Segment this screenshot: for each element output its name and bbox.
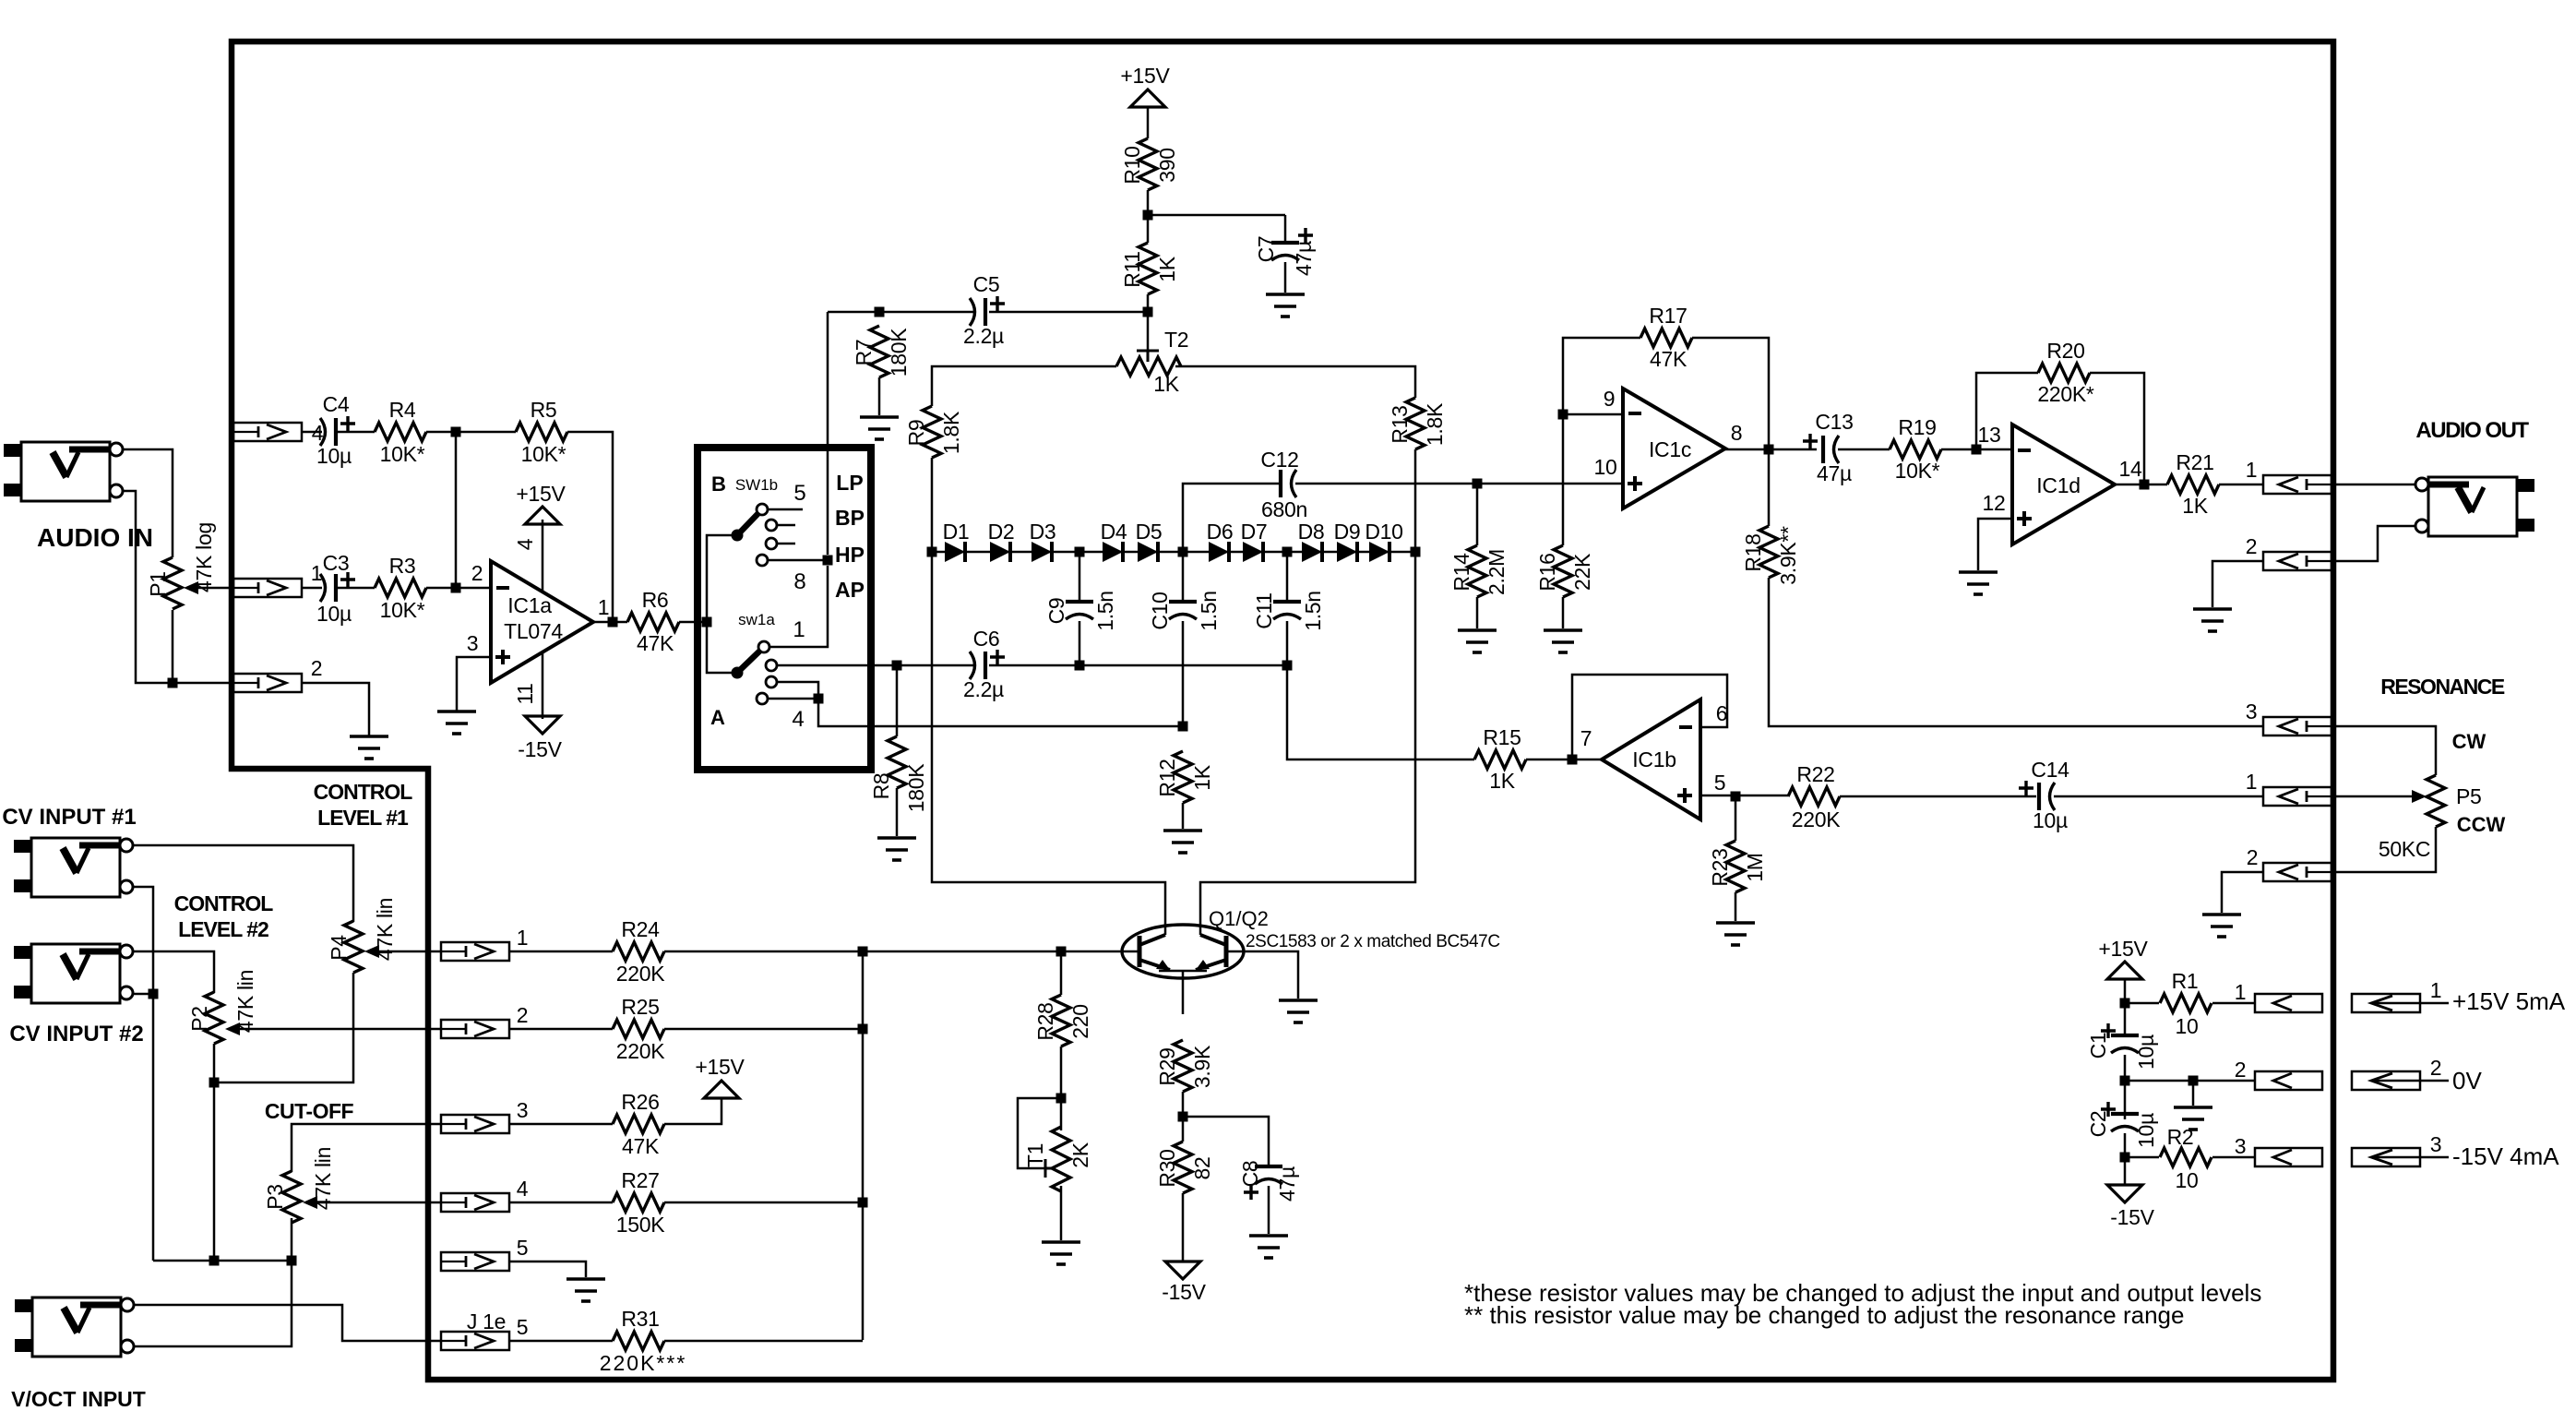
junction inverting input node bbox=[451, 583, 461, 593]
wire P2 bottom bbox=[213, 1044, 216, 1261]
resistor R15 1K bbox=[1474, 750, 1526, 769]
svg-text:P2: P2 bbox=[187, 1006, 211, 1032]
resistor R8 180K bbox=[896, 665, 899, 736]
svg-text:47µ: 47µ bbox=[1817, 461, 1852, 485]
wire R2 row bbox=[2125, 1156, 2255, 1159]
junction 0V ground tap bbox=[2188, 1076, 2199, 1086]
junction R22 R23 node bbox=[1731, 792, 1741, 802]
junction R4 R5 node bbox=[451, 427, 461, 437]
svg-text:R19: R19 bbox=[1898, 415, 1936, 439]
capacitor C9 1.5n bbox=[1079, 552, 1081, 602]
svg-text:2: 2 bbox=[311, 656, 323, 680]
resistor R14 2.2M bbox=[1476, 484, 1479, 545]
junction R1 tap bbox=[2120, 998, 2130, 1009]
svg-text:180K: 180K bbox=[887, 328, 911, 377]
wire audio-in sleeve down bbox=[123, 491, 233, 683]
svg-text:2SC1583 or 2 x matched BC547C: 2SC1583 or 2 x matched BC547C bbox=[1246, 932, 1500, 951]
wire IC1c inverting input bbox=[1563, 413, 1623, 416]
svg-text:150K: 150K bbox=[616, 1213, 665, 1237]
svg-text:D4: D4 bbox=[1101, 520, 1127, 544]
junction P1 bottom bbox=[168, 678, 178, 688]
svg-text:47µ: 47µ bbox=[1275, 1166, 1299, 1202]
resistor R23 1M bbox=[1735, 796, 1737, 841]
svg-text:10µ: 10µ bbox=[2134, 1113, 2158, 1148]
power connector 3 right bbox=[2352, 1148, 2420, 1166]
resistor R10 390 bbox=[1139, 138, 1157, 190]
wire R1 row bbox=[2125, 1002, 2255, 1005]
wire P4 bottom bbox=[214, 973, 353, 1082]
resistor R21 1K bbox=[2167, 475, 2219, 494]
wire sleeve bottom rail bbox=[153, 1260, 292, 1262]
svg-text:TL074: TL074 bbox=[504, 619, 563, 643]
svg-text:1K: 1K bbox=[1155, 256, 1179, 281]
junction -15V row bbox=[2120, 1153, 2130, 1163]
svg-text:R29: R29 bbox=[1155, 1047, 1179, 1085]
wire IC1a pin3 to ground bbox=[457, 657, 491, 711]
board outline border bbox=[232, 42, 2333, 1380]
potentiometer P1 47K log bbox=[163, 557, 182, 609]
wire IC1c output bbox=[1725, 448, 1817, 451]
svg-text:D7: D7 bbox=[1241, 520, 1268, 544]
svg-text:D1: D1 bbox=[943, 520, 970, 544]
capacitor C3 10u bbox=[320, 574, 326, 602]
wire IC1d output bbox=[2115, 484, 2167, 486]
svg-text:3.9K: 3.9K bbox=[1190, 1045, 1214, 1088]
wire R25 to riser bbox=[664, 1028, 863, 1031]
svg-text:1K: 1K bbox=[1153, 372, 1179, 396]
junction R14 top bbox=[1473, 479, 1483, 489]
resistor R3 10K* bbox=[375, 579, 426, 597]
svg-text:R28: R28 bbox=[1033, 1002, 1057, 1040]
wire R10 to R11 bbox=[1147, 190, 1150, 243]
svg-text:2: 2 bbox=[2430, 1056, 2442, 1080]
capacitor C1 10u bbox=[2111, 1034, 2139, 1037]
resistor R2 10 bbox=[2160, 1148, 2212, 1166]
svg-text:1: 1 bbox=[598, 595, 610, 619]
wire R5 to output node bbox=[567, 432, 613, 622]
svg-text:C3: C3 bbox=[323, 551, 350, 575]
wire C4 to R4 bbox=[338, 431, 375, 434]
resistor R26 47K bbox=[613, 1115, 664, 1133]
wire connector4 to C4 bbox=[302, 431, 322, 434]
svg-text:1.5n: 1.5n bbox=[1301, 591, 1325, 631]
junction diode row right bbox=[1411, 547, 1421, 557]
wire P4 wiper to connector 1 bbox=[379, 951, 441, 953]
SW1b contact LP pin5 bbox=[768, 508, 803, 511]
svg-text:1M: 1M bbox=[1743, 853, 1767, 881]
svg-text:220: 220 bbox=[1068, 1004, 1092, 1038]
wire R20 to IC1d output bbox=[2090, 373, 2144, 484]
wire R13 to diode row bbox=[1414, 449, 1417, 552]
svg-text:C6: C6 bbox=[973, 627, 1000, 651]
sw1a contact 4 bbox=[757, 693, 768, 704]
svg-text:R8: R8 bbox=[869, 773, 893, 800]
ground C7 bbox=[1266, 294, 1305, 317]
resistor R29 3.9K bbox=[1174, 1040, 1192, 1092]
resistor R13 1.8K bbox=[1406, 398, 1425, 449]
svg-text:D10: D10 bbox=[1365, 520, 1402, 544]
svg-text:1: 1 bbox=[2235, 980, 2247, 1004]
svg-text:BP: BP bbox=[835, 506, 865, 530]
svg-text:-15V: -15V bbox=[2110, 1205, 2154, 1229]
svg-text:47µ: 47µ bbox=[1292, 241, 1316, 276]
resistor R25 220K bbox=[613, 1020, 664, 1038]
resistor R27 150K bbox=[613, 1193, 664, 1212]
wire P1 wiper to connector 1 bbox=[198, 587, 233, 590]
diode D6 bbox=[1209, 542, 1229, 562]
junction R27 riser bbox=[858, 1198, 868, 1208]
op-amp IC1c bbox=[1623, 389, 1725, 508]
wire R29 to R30 bbox=[1182, 1092, 1185, 1142]
wire R28 to T1 bbox=[1060, 1046, 1063, 1130]
potentiometer P4 47K lin bbox=[344, 921, 363, 973]
svg-text:180K: 180K bbox=[904, 763, 928, 812]
svg-text:R5: R5 bbox=[531, 398, 557, 422]
wire R17 right to output bbox=[1692, 338, 1769, 449]
op-amp IC1b bbox=[1602, 700, 1700, 819]
svg-text:10: 10 bbox=[2176, 1168, 2199, 1192]
wire diode ladder row bbox=[932, 551, 1415, 554]
wire R30 to -15V bbox=[1182, 1193, 1185, 1262]
svg-text:R7: R7 bbox=[852, 340, 876, 366]
svg-text:D8: D8 bbox=[1298, 520, 1325, 544]
junction P2 bottom rail bbox=[209, 1256, 220, 1266]
svg-text:R17: R17 bbox=[1649, 304, 1687, 328]
connector pin4 (audio) bbox=[233, 423, 302, 441]
svg-text:10µ: 10µ bbox=[316, 444, 352, 468]
wire connector1 to R24 bbox=[509, 951, 613, 953]
svg-text:AP: AP bbox=[835, 578, 865, 602]
junction R7 top bbox=[875, 307, 885, 317]
svg-text:47K log: 47K log bbox=[192, 522, 216, 592]
svg-text:1: 1 bbox=[2430, 978, 2442, 1002]
svg-text:220K: 220K bbox=[616, 1039, 665, 1063]
wire switch riser to C5 node bbox=[827, 312, 829, 555]
wire IC1b pin5 bbox=[1700, 795, 1788, 797]
connector audio out 2 bbox=[2263, 552, 2332, 570]
svg-text:10µ: 10µ bbox=[2033, 808, 2068, 832]
switch SW1b arm bbox=[737, 509, 762, 535]
svg-text:1.8K: 1.8K bbox=[939, 411, 963, 454]
svg-text:P1: P1 bbox=[146, 571, 170, 597]
svg-text:R11: R11 bbox=[1120, 251, 1144, 288]
svg-text:R24: R24 bbox=[621, 917, 660, 941]
svg-text:1: 1 bbox=[517, 926, 529, 950]
svg-text:2: 2 bbox=[2247, 845, 2259, 869]
svg-text:1.5n: 1.5n bbox=[1197, 591, 1221, 631]
svg-text:R26: R26 bbox=[621, 1090, 659, 1114]
svg-text:+15V: +15V bbox=[516, 482, 566, 506]
wire connector2 to R25 bbox=[509, 1028, 613, 1031]
ground pin2 bbox=[350, 736, 388, 759]
capacitor C4 10u bbox=[320, 418, 326, 446]
svg-text:10K*: 10K* bbox=[521, 442, 566, 466]
diode D7 bbox=[1243, 542, 1263, 562]
svg-text:D3: D3 bbox=[1030, 520, 1056, 544]
capacitor C11 1.5n bbox=[1286, 552, 1289, 602]
junction CV2 sleeve bbox=[149, 989, 159, 999]
connector resonance 3 bbox=[2263, 717, 2332, 735]
wire connector3 to R26 bbox=[509, 1123, 613, 1126]
svg-text:V/OCT INPUT: V/OCT INPUT bbox=[11, 1387, 146, 1411]
ground R7 bbox=[860, 417, 899, 439]
svg-text:R1: R1 bbox=[2172, 969, 2199, 993]
svg-text:4: 4 bbox=[513, 538, 537, 550]
svg-text:R18: R18 bbox=[1741, 533, 1765, 571]
svg-text:C14: C14 bbox=[2031, 758, 2069, 782]
op-amp IC1d bbox=[2012, 424, 2115, 544]
+15V supply R26 bbox=[704, 1081, 739, 1098]
svg-text:J 1e: J 1e bbox=[467, 1309, 506, 1333]
wire audio-out sleeve bbox=[2332, 526, 2416, 561]
junction diode row C9 tap bbox=[1075, 547, 1085, 557]
svg-text:13: 13 bbox=[1978, 423, 2001, 447]
wire C12 to IC1c noninverting input bbox=[1295, 483, 1623, 485]
resistor R17 47K bbox=[1563, 338, 1640, 414]
ground R12 bbox=[1163, 831, 1202, 853]
resistor R31 220K*** bbox=[613, 1332, 664, 1350]
svg-text:R4: R4 bbox=[389, 398, 416, 422]
svg-text:CCW: CCW bbox=[2457, 813, 2506, 836]
junction AP contact to C5 line bbox=[823, 556, 833, 566]
svg-text:R23: R23 bbox=[1708, 848, 1732, 886]
diode D3 bbox=[1032, 542, 1052, 562]
ground IC1d pin12 bbox=[1959, 572, 1998, 594]
wire R26 to +15V bbox=[664, 1098, 722, 1124]
connector cv pin4 bbox=[441, 1193, 509, 1212]
wire T2 row left bbox=[932, 366, 1116, 406]
svg-text:sw1a: sw1a bbox=[738, 611, 775, 628]
wire sw1a pin1 contact riser bbox=[769, 566, 828, 647]
jack J-cv1 bbox=[31, 838, 120, 897]
svg-text:8: 8 bbox=[793, 569, 805, 594]
junction diode row left bbox=[927, 547, 937, 557]
junction IC1c output R18 bbox=[1764, 445, 1774, 455]
transistor Q1 internals bbox=[1138, 936, 1142, 967]
svg-text:2.2µ: 2.2µ bbox=[963, 677, 1004, 701]
svg-text:10: 10 bbox=[1594, 455, 1617, 479]
svg-text:10K*: 10K* bbox=[380, 598, 425, 622]
potentiometer P5 50KC bbox=[2427, 775, 2445, 827]
wire shared emitter bar bbox=[1159, 971, 1207, 1014]
svg-text:C10: C10 bbox=[1148, 592, 1172, 629]
wire P5 wiper to connector 1 bbox=[2332, 795, 2412, 798]
capacitor C8 47u bbox=[1255, 1165, 1282, 1168]
ground 0V bbox=[2174, 1107, 2212, 1130]
wire pin5 to ground bbox=[509, 1262, 586, 1277]
svg-text:10K*: 10K* bbox=[380, 442, 425, 466]
svg-text:0V: 0V bbox=[2452, 1067, 2482, 1094]
wire CV1 tip to P4 bbox=[133, 845, 353, 922]
connector resonance 1 bbox=[2263, 787, 2332, 806]
resistor R18 3.9K** bbox=[1768, 449, 1771, 526]
svg-text:22K: 22K bbox=[1570, 553, 1594, 591]
junction IC1d output R20 bbox=[2140, 480, 2150, 490]
resistor R30 82 bbox=[1174, 1142, 1192, 1193]
svg-text:CV INPUT #1: CV INPUT #1 bbox=[2, 805, 136, 830]
svg-text:D6: D6 bbox=[1207, 520, 1234, 544]
junction diode row C10 tap bbox=[1178, 547, 1188, 557]
power connector 1 left bbox=[2255, 994, 2322, 1012]
trimmer T2 1K bbox=[1137, 351, 1159, 362]
transistor pair Q1/Q2 bbox=[1122, 925, 1244, 978]
svg-text:-15V: -15V bbox=[518, 737, 562, 761]
svg-text:T1: T1 bbox=[1023, 1143, 1047, 1167]
wire C5 node horizontal bbox=[828, 311, 1148, 314]
wire connector3 to P3 top bbox=[292, 1124, 441, 1172]
svg-text:9: 9 bbox=[1604, 387, 1616, 411]
svg-text:5: 5 bbox=[1714, 771, 1726, 795]
svg-text:3: 3 bbox=[2235, 1134, 2247, 1158]
svg-text:1.8K: 1.8K bbox=[1423, 402, 1447, 446]
SW1b contact AP pin8 bbox=[757, 555, 768, 566]
resistor R6 47K bbox=[627, 613, 679, 631]
wire CV1 sleeve bbox=[133, 887, 153, 1261]
capacitor C5 2.2u bbox=[970, 298, 975, 326]
sw1a contact 3 bbox=[766, 676, 777, 688]
wire connector2 to ground bbox=[2212, 561, 2263, 607]
svg-text:IC1d: IC1d bbox=[2036, 473, 2080, 497]
resistor R19 10K* bbox=[1890, 440, 1941, 459]
svg-text:R6: R6 bbox=[642, 588, 669, 612]
resistor R16 22K bbox=[1562, 414, 1565, 545]
wire pin2 to ground bbox=[302, 683, 369, 735]
capacitor C2 10u bbox=[2111, 1112, 2139, 1116]
diode D5 bbox=[1138, 542, 1158, 562]
wire R3 to IC1a inverting input pin2 bbox=[426, 587, 491, 590]
trimmer T1 2K bbox=[1018, 1098, 1061, 1168]
svg-text:47K lin: 47K lin bbox=[233, 970, 257, 1033]
svg-text:6: 6 bbox=[1716, 701, 1728, 725]
connector cv pin1 bbox=[441, 942, 509, 961]
svg-text:CW: CW bbox=[2452, 730, 2487, 753]
SW1b contact HP bbox=[766, 538, 777, 549]
svg-text:+15V: +15V bbox=[2098, 937, 2148, 961]
-15V supply Q bias bbox=[1165, 1262, 1200, 1279]
svg-text:P3: P3 bbox=[263, 1184, 287, 1210]
wire R15 to IC1b output pin7 bbox=[1526, 759, 1602, 761]
switch sw1a arm bbox=[737, 647, 764, 673]
capacitor C12 680n bbox=[1279, 470, 1282, 497]
svg-text:1: 1 bbox=[2246, 770, 2258, 794]
jack J-audio-out bbox=[2428, 477, 2517, 536]
connector resonance 2 bbox=[2263, 863, 2332, 881]
svg-text:1K: 1K bbox=[1190, 764, 1214, 790]
junction P3 bottom rail bbox=[287, 1256, 297, 1266]
diode D10 bbox=[1369, 542, 1389, 562]
diode D4 bbox=[1103, 542, 1123, 562]
ground IC1a pin3 bbox=[437, 711, 476, 734]
diode D2 bbox=[990, 542, 1010, 562]
switch enclosure box bbox=[698, 448, 871, 770]
diode D1 bbox=[945, 542, 965, 562]
svg-text:C11: C11 bbox=[1252, 592, 1276, 629]
connector J1e bbox=[441, 1332, 509, 1350]
svg-text:2.2µ: 2.2µ bbox=[963, 324, 1004, 348]
wire CV2 tip to P2 bbox=[133, 951, 214, 993]
junction IC1b feedback at pin7 bbox=[1568, 755, 1578, 765]
svg-text:10: 10 bbox=[2176, 1014, 2199, 1038]
power connector 1 right bbox=[2352, 994, 2420, 1012]
svg-text:IC1a: IC1a bbox=[507, 593, 552, 617]
power connector 3 left bbox=[2255, 1148, 2322, 1166]
junction C11 bottom on C6 line bbox=[1282, 661, 1293, 671]
svg-text:+15V: +15V bbox=[695, 1055, 745, 1079]
wire C6 left bbox=[897, 664, 973, 667]
svg-text:D2: D2 bbox=[988, 520, 1015, 544]
svg-text:C1: C1 bbox=[2086, 1033, 2110, 1059]
svg-text:220K: 220K bbox=[616, 962, 665, 986]
wire R27 to riser bbox=[664, 1202, 863, 1204]
wire connector4 to R27 bbox=[509, 1202, 613, 1204]
wire diode ladder right loop to Q2 collector bbox=[1200, 552, 1415, 935]
ground T1 bbox=[1042, 1242, 1080, 1264]
capacitor C10 1.5n bbox=[1182, 552, 1185, 602]
wire R31 to riser bbox=[664, 1340, 863, 1343]
svg-text:220K*: 220K* bbox=[2037, 382, 2094, 406]
resistor R7 180K bbox=[870, 326, 888, 377]
wire sw1a pin4 line to filter bbox=[818, 699, 1183, 726]
wire C13 to R19 bbox=[1838, 448, 1890, 451]
svg-text:B: B bbox=[711, 472, 726, 496]
svg-text:C4: C4 bbox=[323, 392, 350, 416]
resistor R11 1K bbox=[1139, 243, 1157, 294]
svg-text:D5: D5 bbox=[1136, 520, 1163, 544]
svg-text:T2: T2 bbox=[1164, 328, 1188, 352]
svg-text:4: 4 bbox=[792, 707, 804, 732]
wire C11 node to R15 bbox=[1287, 665, 1474, 759]
svg-text:390: 390 bbox=[1155, 148, 1179, 182]
wire C10 bottom to R12 node bbox=[1182, 621, 1185, 726]
svg-text:1.5n: 1.5n bbox=[1093, 591, 1117, 631]
svg-text:2: 2 bbox=[471, 561, 483, 585]
svg-text:SW1b: SW1b bbox=[735, 476, 778, 494]
ground pin5 bbox=[566, 1279, 605, 1301]
junction R6 entry on common link bbox=[702, 617, 712, 628]
svg-text:R9: R9 bbox=[904, 420, 928, 447]
svg-text:-15V 4mA: -15V 4mA bbox=[2452, 1142, 2559, 1170]
resistor R5 10K* bbox=[516, 423, 567, 441]
svg-text:4: 4 bbox=[517, 1177, 529, 1201]
connector cv pin2 bbox=[441, 1020, 509, 1038]
svg-text:R21: R21 bbox=[2176, 450, 2213, 474]
wire T1 to ground bbox=[1060, 1186, 1063, 1240]
wire 0V row bbox=[2125, 1080, 2255, 1082]
svg-text:47K: 47K bbox=[622, 1134, 660, 1158]
svg-text:R31: R31 bbox=[621, 1307, 659, 1331]
svg-text:CV INPUT #2: CV INPUT #2 bbox=[9, 1022, 143, 1046]
svg-text:CUT-OFF: CUT-OFF bbox=[265, 1099, 354, 1123]
svg-text:LEVEL #2: LEVEL #2 bbox=[178, 917, 268, 941]
junction 0V rail bbox=[2120, 1076, 2130, 1086]
svg-text:47K lin: 47K lin bbox=[311, 1147, 335, 1210]
ground R23 bbox=[1716, 923, 1755, 945]
svg-text:14: 14 bbox=[2119, 457, 2142, 481]
wire R4R5 node down to inverting input bbox=[455, 432, 458, 588]
potentiometer P3 47K lin bbox=[282, 1171, 301, 1223]
svg-text:R15: R15 bbox=[1483, 725, 1521, 749]
svg-text:Q1/Q2: Q1/Q2 bbox=[1209, 907, 1269, 930]
svg-text:** this resistor value may be: ** this resistor value may be changed to… bbox=[1464, 1301, 2184, 1329]
svg-text:2.2M: 2.2M bbox=[1485, 549, 1509, 595]
connector cv pin5 bbox=[441, 1252, 509, 1271]
svg-text:2: 2 bbox=[2246, 534, 2258, 558]
svg-text:A: A bbox=[710, 706, 725, 729]
junction spine R28 bbox=[1056, 947, 1067, 957]
resistor R24 220K bbox=[613, 942, 664, 961]
wire connector1 to C3 bbox=[302, 587, 322, 590]
wire T2 row right bbox=[1175, 366, 1415, 398]
